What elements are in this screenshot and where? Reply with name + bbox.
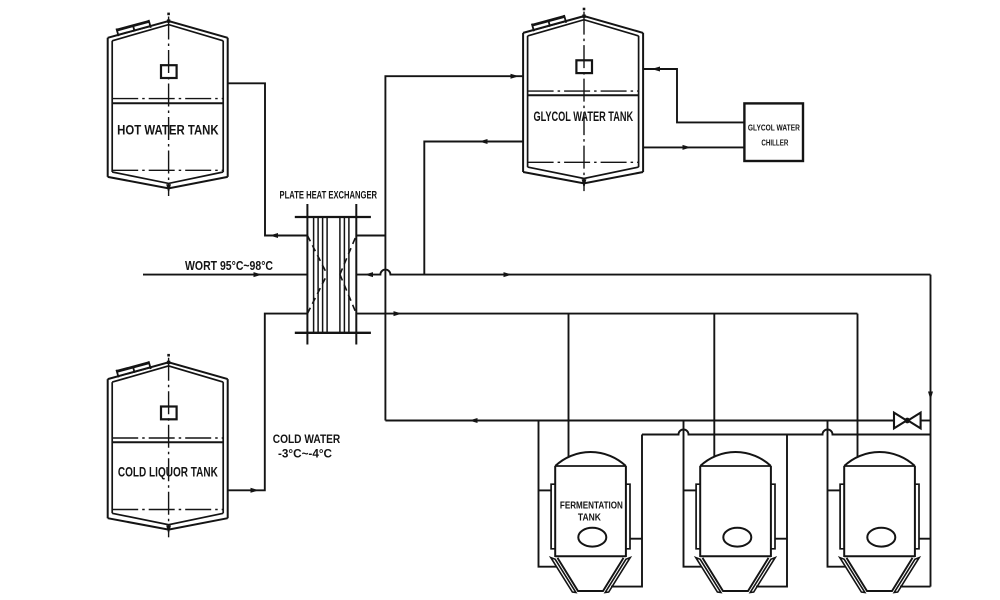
cold liquor tank [107,379,109,518]
fermentation tank 2 [699,466,701,557]
wire: wort drop to fermentation tank 1 [568,314,570,457]
arrow return flow [469,418,478,423]
wire: tank 2 left jacket tap [684,489,697,491]
wire: tank 3 right riser (glycol in) [900,586,931,588]
arrow glycol from tank [479,139,488,144]
arrow glycol into exchanger [365,272,374,277]
wire: main right vertical x=930.5 [930,275,932,587]
wire: tank 2 left riser (glycol out) [684,421,702,567]
svg-text:HOT WATER TANK: HOT WATER TANK [117,122,219,137]
wire: glycol tank right bottom to chiller [643,146,745,148]
arrow glycol return into tank [511,74,520,79]
wire: tank 1 left riser (glycol out) [539,421,557,567]
svg-text:-3°C~-4°C: -3°C~-4°C [278,447,332,461]
wire: glycol tank right top to chiller [643,69,745,122]
arrow chilled glycol into tank [652,67,661,72]
wire: wort drop to fermentation tank 3 [857,314,859,457]
wire: glycol return manifold y=420.5 [385,420,894,422]
plate heat exchanger [306,204,308,345]
glycol water chiller [744,103,803,161]
arrow to hot water tank [270,233,279,238]
wire: tank 3 left jacket tap [828,489,841,491]
svg-text:COLD LIQUOR TANK: COLD LIQUOR TANK [118,465,218,480]
svg-text:TANK: TANK [578,513,601,524]
glycol water tank [522,33,524,172]
wire: tank 1 left jacket tap [539,489,552,491]
wire: wort manifold y=313.2 [356,313,857,315]
wire: exchanger top-right to glycol return riser [356,235,385,237]
valve (bypass) [894,413,907,429]
arrow glycol to chiller [683,145,692,150]
wire: glycol feed from glycol tank left [424,142,523,275]
wire: wort drop to fermentation tank 2 [713,314,715,457]
arrow down supply [928,392,933,401]
svg-text:COLD WATER: COLD WATER [273,432,341,446]
fermentation tank 3 [843,466,845,557]
wire: hot water tank to exchanger top-left [228,83,308,235]
arrow cooled wort [394,311,403,316]
wire: tank 1 right jacket tap [630,538,642,540]
wire: tank 2 right riser (glycol in) [756,435,787,587]
svg-text:FERMENTATION: FERMENTATION [560,501,623,512]
svg-text:CHILLER: CHILLER [761,137,789,147]
svg-text:WORT 95°C~98°C: WORT 95°C~98°C [185,259,273,273]
arrow cold water out of tank [251,488,260,493]
hot water tank [107,38,109,177]
svg-text:GLYCOL WATER: GLYCOL WATER [748,122,801,132]
arrow glycol to fermenters [504,272,513,277]
wire: glycol supply manifold y=434.5 with hops [642,430,931,435]
wire: tank 1 right riser (glycol in) [611,435,642,587]
wire: cold liquor tank to exchanger bottom-left [228,314,308,491]
svg-text:GLYCOL WATER TANK: GLYCOL WATER TANK [533,109,633,124]
wire: glycol return riser to glycol tank [385,76,523,420]
arrow wort into exchanger [254,272,263,277]
wire: glycol supply main y=274.5 with hop [356,270,930,275]
wire: tank 3 right jacket tap [919,538,931,540]
wire: tank 3 left riser (glycol out) [828,421,846,567]
wire: WORT inlet line [143,274,307,276]
svg-text:PLATE HEAT EXCHANGER: PLATE HEAT EXCHANGER [280,189,378,201]
fermentation tank 1 [554,466,556,557]
wire: valve to main vertical [921,420,931,422]
wire: tank 2 right jacket tap [775,538,787,540]
